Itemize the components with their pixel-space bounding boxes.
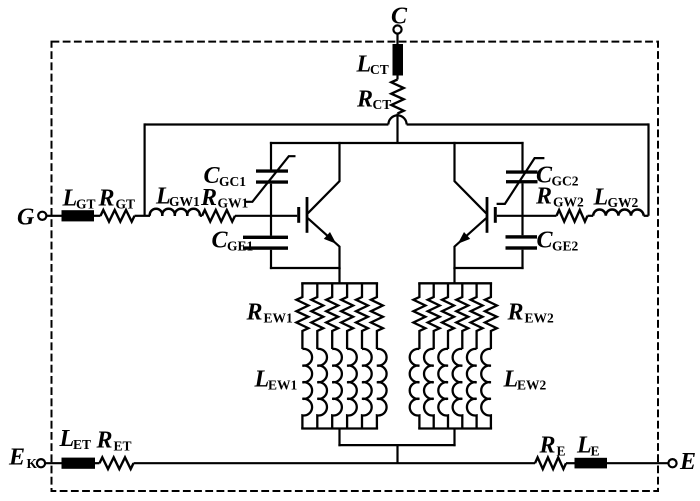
wire left branch middle (C_GC1 to C_GE1 through gate node) xyxy=(270,184,272,236)
wire L_GW2 to right gate drop xyxy=(644,215,649,217)
capacitor C_GC2 plates xyxy=(506,170,538,183)
svg-text:GC1: GC1 xyxy=(219,174,246,189)
wire join to emitter rail xyxy=(396,445,398,464)
svg-text:GW1: GW1 xyxy=(169,194,200,209)
transistor T1 gate bar xyxy=(297,207,300,223)
resistor right bank R branch 6 xyxy=(485,283,497,349)
svg-text:L: L xyxy=(62,186,78,212)
wire left bank bottom stub xyxy=(338,429,340,447)
transistor T1 emitter lead xyxy=(308,218,340,269)
wire right IGBT gate to R_GW2 xyxy=(497,215,557,217)
svg-text:L: L xyxy=(593,185,609,211)
label L_CT xyxy=(356,52,389,78)
label C_GE1 xyxy=(212,228,254,254)
capacitor C_GC2 variable arrow xyxy=(497,158,545,204)
node G terminal circle xyxy=(38,212,46,220)
svg-text:EW1: EW1 xyxy=(264,310,294,325)
label R_EW1 xyxy=(246,300,294,326)
svg-text:C: C xyxy=(391,4,408,30)
svg-text:ET: ET xyxy=(114,438,132,453)
svg-text:E: E xyxy=(679,449,696,475)
transistor T2 collector lead xyxy=(455,142,487,213)
resistor right bank R branch 2 xyxy=(428,283,440,349)
wire left bank bottom bus xyxy=(301,427,378,429)
inductor left bank L branch 1 xyxy=(302,349,312,429)
resistor left bank R branch 3 xyxy=(326,283,338,349)
capacitor C_GE2 plates xyxy=(506,235,538,250)
label C_GE2 xyxy=(537,228,579,254)
label L_E xyxy=(576,433,600,459)
label L_EW1 xyxy=(254,367,298,393)
wire collector bus xyxy=(270,142,524,144)
svg-text:G: G xyxy=(17,205,35,231)
label R_E xyxy=(539,433,566,459)
resistor left bank R branch 5 xyxy=(356,283,368,349)
wire right branch upper (bus to C_GC2) xyxy=(521,142,523,171)
wire L_GW1 to R_GW1 xyxy=(200,215,202,217)
label R_GW2 xyxy=(535,184,584,210)
wire L_E to E terminal xyxy=(607,462,668,464)
label E (emitter terminal) xyxy=(679,449,696,475)
inductor right bank L branch 1 xyxy=(410,349,420,429)
label C (collector terminal) xyxy=(391,4,408,30)
inductor right bank L branch 2 xyxy=(424,349,434,429)
wire left box bottom xyxy=(270,267,341,269)
svg-text:E: E xyxy=(557,443,566,458)
wire R_E to L_E xyxy=(566,462,575,464)
transistor T2 body bar xyxy=(486,197,489,233)
svg-text:E: E xyxy=(8,445,25,471)
capacitor C_GE1 plates xyxy=(243,236,288,250)
inductor L_ET (solid bar) xyxy=(62,458,96,469)
svg-text:L: L xyxy=(576,433,592,459)
label R_GT xyxy=(98,186,136,212)
label L_GT xyxy=(62,186,96,212)
inductor L_GT (solid bar) xyxy=(62,210,95,221)
inductor right bank L branch 5 xyxy=(467,349,477,429)
svg-text:EW1: EW1 xyxy=(268,377,298,392)
resistor right bank R branch 3 xyxy=(442,283,454,349)
svg-text:E: E xyxy=(591,443,600,458)
resistor R_GW1 xyxy=(202,210,235,222)
resistor R_CT xyxy=(391,80,403,114)
wire top gate bus left segment xyxy=(145,123,389,125)
wire R_GT to L_GW1 xyxy=(135,215,151,217)
dashed module boundary xyxy=(52,42,659,491)
label C_GC1 xyxy=(204,163,247,189)
svg-text:R: R xyxy=(507,300,524,326)
wire left bank top bus xyxy=(301,282,378,284)
inductor left bank L branch 3 xyxy=(332,349,342,429)
node C terminal circle xyxy=(393,25,401,33)
wire left emitter stub to bank xyxy=(338,268,340,284)
transistor T2 emitter arrowhead xyxy=(458,232,470,244)
inductor right bank L branch 4 xyxy=(453,349,463,429)
resistor right bank R branch 5 xyxy=(471,283,483,349)
wire G terminal to L_GT xyxy=(46,215,62,217)
wire right box bottom xyxy=(453,267,523,269)
wire right gate drop xyxy=(647,123,649,215)
wire emitter rail xyxy=(134,462,536,464)
svg-text:EW2: EW2 xyxy=(517,377,547,392)
capacitor C_GC1 variable arrow xyxy=(246,156,296,202)
inductor L_GW2 coil xyxy=(593,209,643,215)
inductor left bank L branch 2 xyxy=(317,349,327,429)
resistor left bank R branch 2 xyxy=(311,283,323,349)
svg-text:GT: GT xyxy=(116,196,136,211)
wire R_GW1 to left IGBT gate xyxy=(235,215,297,217)
label L_GW1 xyxy=(155,184,200,210)
transistor T2 emitter lead xyxy=(455,218,487,269)
inductor right bank L branch 3 xyxy=(438,349,448,429)
resistor right bank R branch 1 xyxy=(413,283,425,349)
capacitor C_GC1 plates xyxy=(256,169,288,183)
svg-text:C: C xyxy=(204,163,221,189)
wire right emitter stub to bank xyxy=(453,268,455,284)
svg-text:R: R xyxy=(539,433,556,459)
svg-text:GC2: GC2 xyxy=(552,173,579,188)
svg-text:GW1: GW1 xyxy=(218,196,249,211)
wire E_K terminal to L_ET xyxy=(45,462,62,464)
wire top gate bus right segment xyxy=(407,123,649,125)
inductor left bank L branch 5 xyxy=(362,349,372,429)
svg-text:C: C xyxy=(212,228,229,254)
resistor left bank R branch 6 xyxy=(371,283,383,349)
wire R_CT down to collector bus (passes under hop) xyxy=(396,114,398,144)
wire right branch middle (C_GC2 to C_GE2 through gate node) xyxy=(521,183,523,235)
label L_EW2 xyxy=(503,367,547,393)
inductor right bank L branch 6 xyxy=(481,349,491,429)
svg-text:ET: ET xyxy=(73,437,91,452)
svg-text:L: L xyxy=(503,367,519,393)
wire C terminal to L_CT xyxy=(396,34,398,45)
svg-text:GW2: GW2 xyxy=(553,194,584,209)
label R_ET xyxy=(96,428,132,454)
label R_GW1 xyxy=(200,185,249,211)
wire right bank bottom stub xyxy=(453,429,455,447)
inductor L_GW1 coil xyxy=(150,209,200,216)
label G (gate terminal) xyxy=(17,205,35,231)
resistor R_ET xyxy=(100,457,134,469)
resistor right bank R branch 4 xyxy=(456,283,468,349)
svg-text:CT: CT xyxy=(373,97,392,112)
svg-text:L: L xyxy=(254,367,270,393)
svg-text:CT: CT xyxy=(370,62,389,77)
svg-text:R: R xyxy=(356,87,373,113)
inductor L_E (solid bar) xyxy=(575,458,608,469)
svg-text:GE2: GE2 xyxy=(552,238,579,253)
wire R_GW2 to L_GW2 xyxy=(588,215,594,217)
wire right bank bottom bus xyxy=(418,427,492,429)
wire left branch upper (bus to C_GC1) xyxy=(270,142,272,170)
svg-text:L: L xyxy=(59,426,75,452)
wire joining bank bottoms xyxy=(338,444,455,446)
wire left branch lower (C_GE1 to emitter rail) xyxy=(270,250,272,269)
wire L_CT to R_CT xyxy=(396,76,398,80)
label L_GW2 xyxy=(593,185,639,211)
inductor left bank L branch 4 xyxy=(347,349,357,429)
wire L_GT to R_GT xyxy=(94,215,101,217)
wire L_ET to R_ET xyxy=(95,462,100,464)
resistor R_GW2 xyxy=(557,210,588,222)
svg-text:EW2: EW2 xyxy=(525,310,555,325)
label L_ET xyxy=(59,426,92,452)
label E_K (Kelvin emitter terminal) xyxy=(8,445,38,472)
svg-text:R: R xyxy=(98,186,115,212)
node E_K terminal circle xyxy=(37,459,45,467)
resistor left bank R branch 4 xyxy=(341,283,353,349)
inductor L_CT (solid bar) xyxy=(393,44,404,76)
resistor R_E xyxy=(535,457,566,469)
transistor T1 body bar xyxy=(306,197,309,233)
svg-text:C: C xyxy=(537,228,554,254)
transistor T1 collector lead xyxy=(308,142,340,213)
svg-text:GT: GT xyxy=(76,196,96,211)
resistor left bank R branch 1 xyxy=(296,283,308,349)
transistor T2 gate bar xyxy=(494,207,497,223)
node E terminal circle xyxy=(668,459,676,467)
wire right bank top bus xyxy=(418,282,492,284)
wire hop over collector wire xyxy=(388,115,406,124)
svg-text:R: R xyxy=(96,428,113,454)
transistor T1 emitter arrowhead xyxy=(324,232,336,244)
resistor R_GT xyxy=(101,210,135,222)
svg-text:GW2: GW2 xyxy=(608,195,639,210)
svg-text:GE1: GE1 xyxy=(227,239,254,254)
wire left gate drop xyxy=(144,123,146,215)
inductor left bank L branch 6 xyxy=(377,349,387,429)
label R_EW2 xyxy=(507,300,555,326)
svg-text:L: L xyxy=(356,52,372,78)
svg-text:R: R xyxy=(246,300,263,326)
wire right branch lower (C_GE2 to emitter rail) xyxy=(521,250,523,269)
svg-text:R: R xyxy=(535,184,552,210)
label R_CT xyxy=(356,87,391,113)
svg-text:K: K xyxy=(27,456,38,471)
label C_GC2 xyxy=(536,163,579,189)
